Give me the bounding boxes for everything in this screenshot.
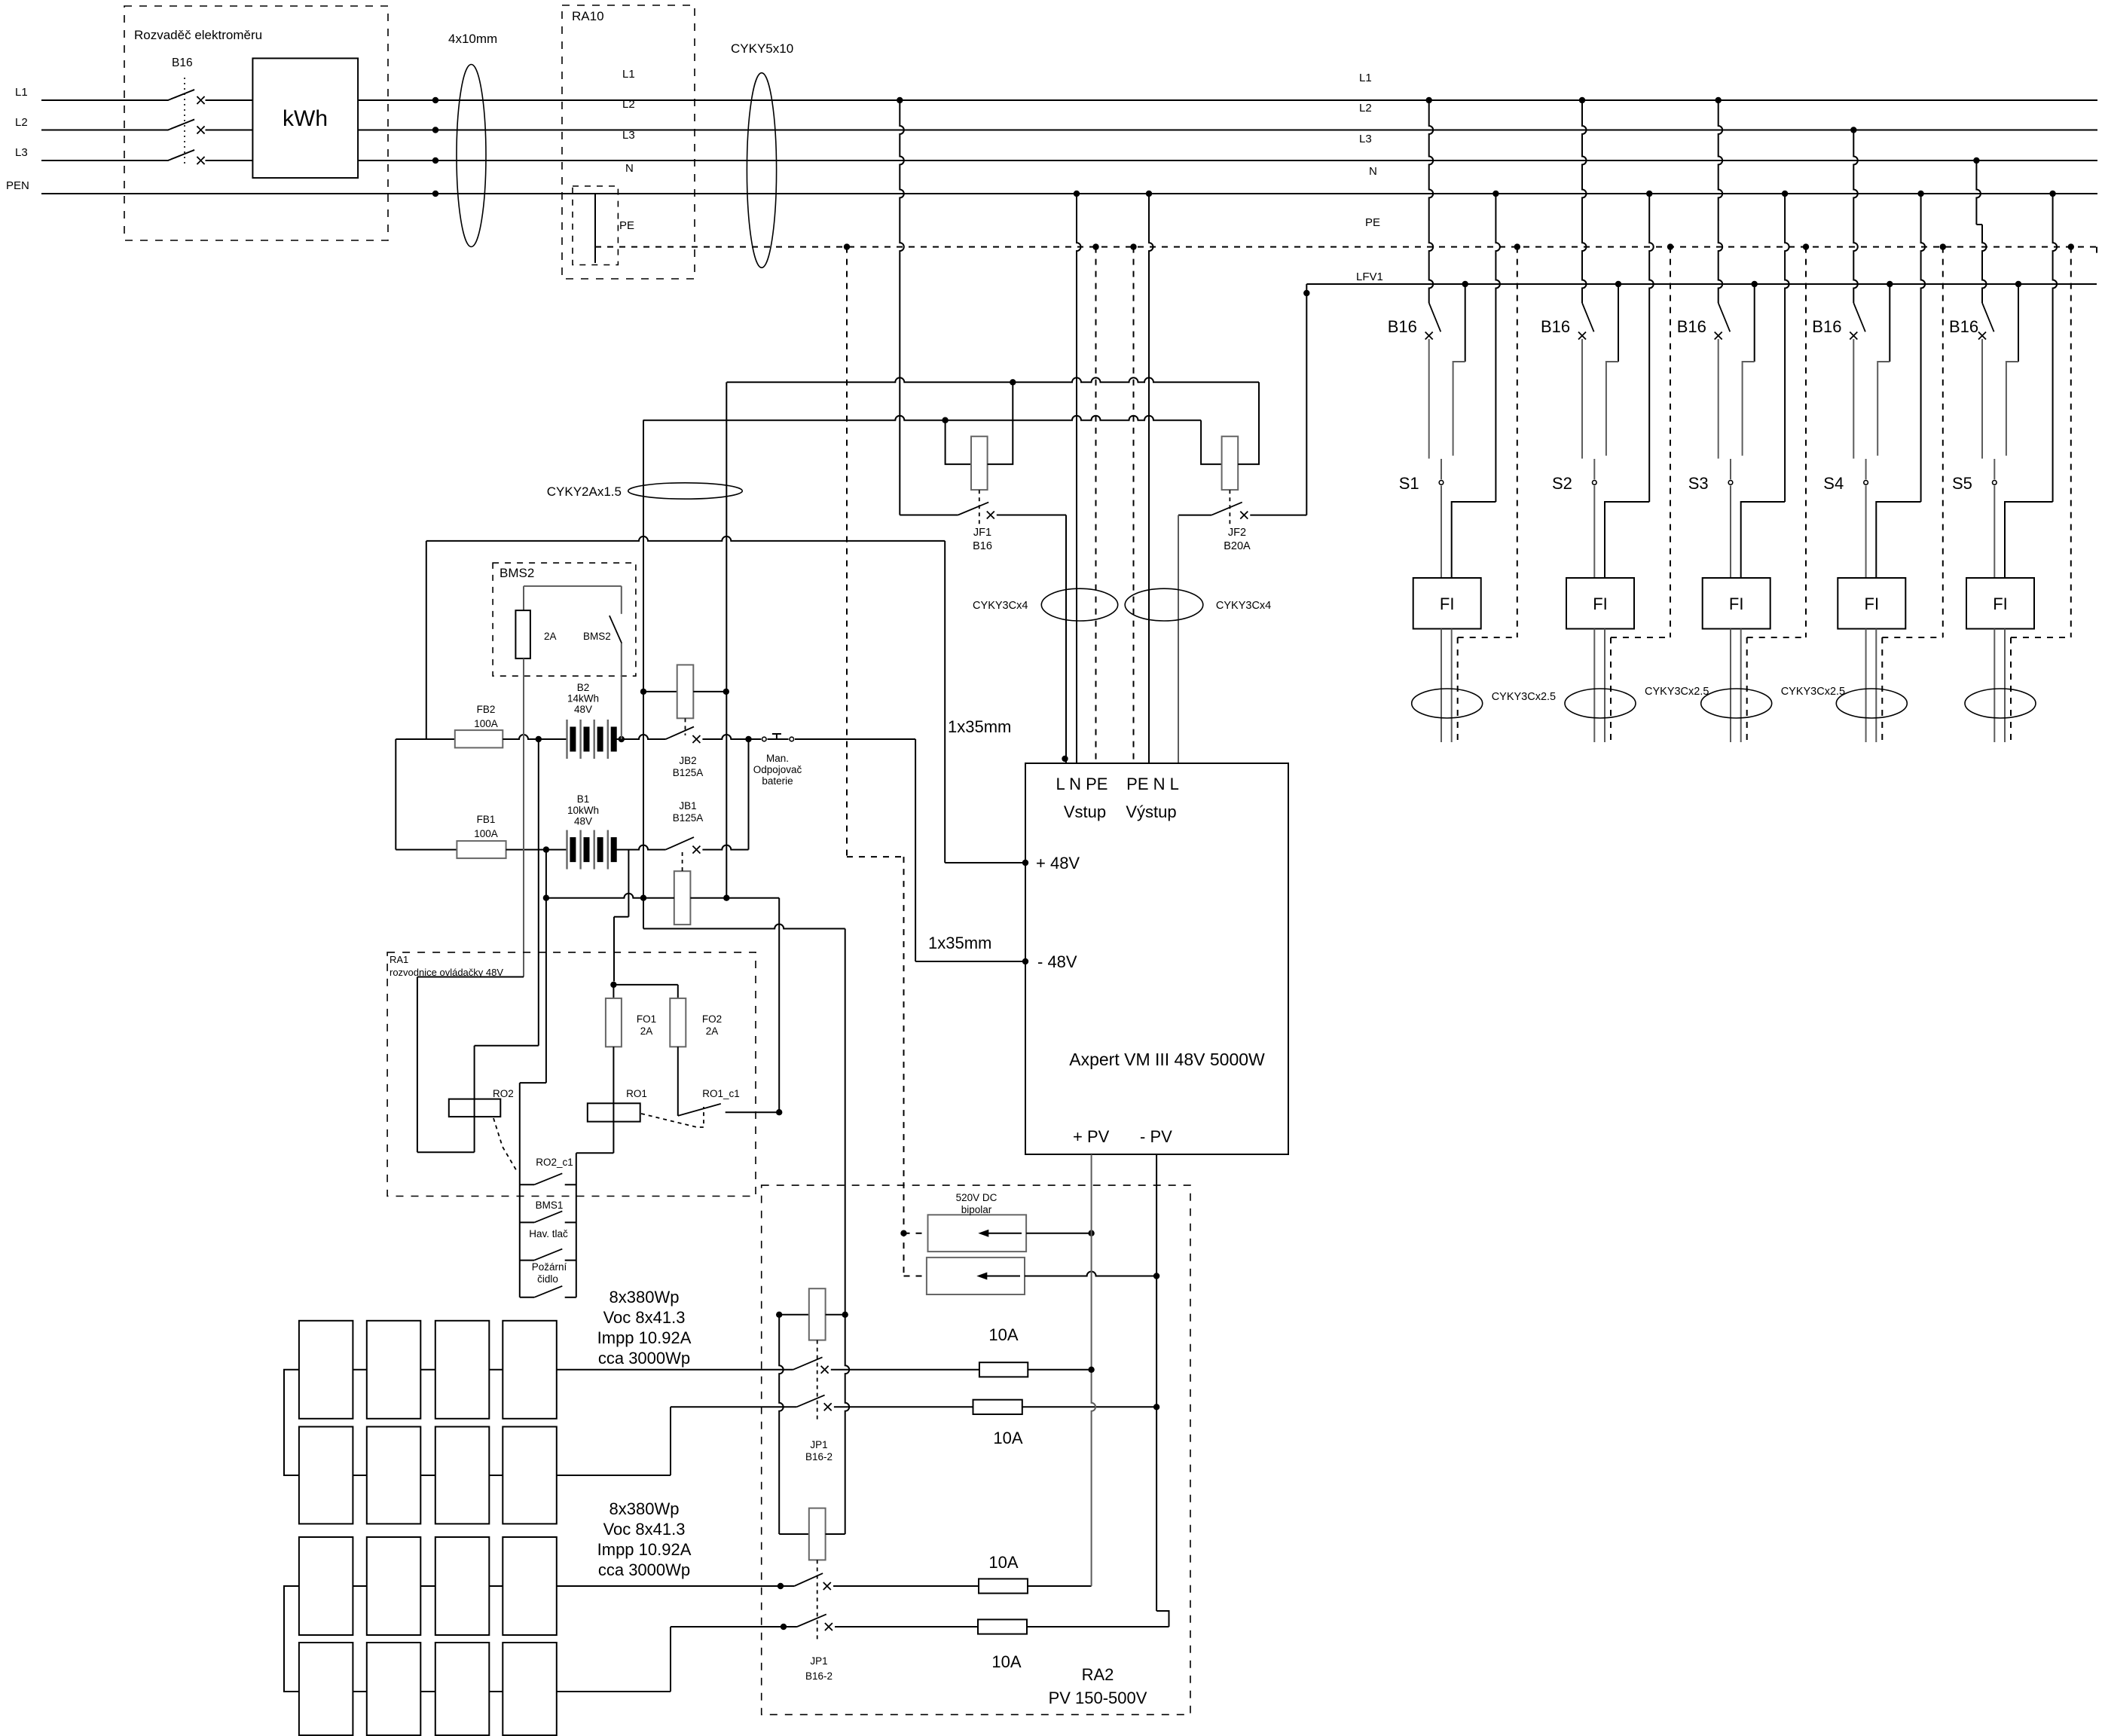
wire JB1 output down to RO1_c1 xyxy=(778,898,780,1113)
wire SPD2 to -PV xyxy=(1025,1272,1156,1276)
breaker B16 branch 2 feed wire from bus xyxy=(1579,97,1585,103)
svg-text:100A: 100A xyxy=(474,718,498,729)
cable CYKY3Cx2.5 ellipse branch 4 xyxy=(1836,689,1907,718)
relay coil RO2 circuit loop xyxy=(538,739,539,1046)
wire N tap branch 4 xyxy=(1917,191,1923,197)
breaker B16 branch 4 feed wire from bus xyxy=(1850,127,1856,133)
svg-text:48V: 48V xyxy=(574,704,592,715)
svg-text:BMS1: BMS1 xyxy=(536,1200,564,1211)
wire panel series link xyxy=(489,1691,503,1692)
contact BMS1 xyxy=(520,1221,534,1223)
switch JP1 lower pole 2 xyxy=(797,1614,826,1627)
wire N vystup xyxy=(1146,191,1152,197)
wire bus PEN/N xyxy=(41,193,2097,194)
wire L1 to JF1 switch xyxy=(897,97,903,103)
wire string2 row1 to JP1 xyxy=(557,1585,795,1587)
breaker B16 pole 1 (meter) xyxy=(168,90,194,100)
switch JP1 lower pole 1 xyxy=(794,1573,823,1586)
svg-text:- PV: - PV xyxy=(1140,1127,1172,1146)
wire FO supply junction xyxy=(610,982,616,988)
switch S4 changeover xyxy=(1865,459,1867,479)
svg-text:FO1: FO1 xyxy=(637,1013,656,1025)
wire PE tap branch 3 (dashed) xyxy=(1803,243,1809,249)
switch S1 changeover xyxy=(1441,459,1442,479)
svg-text:cca 3000Wp: cca 3000Wp xyxy=(598,1560,690,1579)
svg-text:CYKY5x10: CYKY5x10 xyxy=(731,41,793,56)
svg-text:10kWh: 10kWh xyxy=(567,805,599,816)
svg-text:Voc 8x41.3: Voc 8x41.3 xyxy=(603,1308,686,1327)
svg-text:B16-2: B16-2 xyxy=(805,1451,833,1462)
wire bus L3 xyxy=(41,160,2097,161)
wire string1 row1 to JP1 xyxy=(557,1369,793,1371)
PV panel rect xyxy=(435,1427,490,1524)
cable 4x10mm ellipse xyxy=(457,65,486,247)
svg-text:B2: B2 xyxy=(577,682,590,693)
svg-text:FI: FI xyxy=(1440,594,1455,613)
wire JB outputs tie xyxy=(748,739,750,850)
breaker JP1 upper fuse element xyxy=(776,1312,782,1318)
svg-text:FI: FI xyxy=(1593,594,1608,613)
svg-text:JF2: JF2 xyxy=(1228,527,1246,539)
wire bus L2 xyxy=(41,130,2097,131)
svg-text:B20A: B20A xyxy=(1224,540,1251,552)
svg-text:FI: FI xyxy=(1865,594,1880,613)
svg-text:JB2: JB2 xyxy=(679,755,696,766)
wire PE end stub xyxy=(2096,247,2097,258)
switch S3 changeover xyxy=(1730,459,1731,479)
svg-text:RA10: RA10 xyxy=(572,9,604,23)
svg-text:PV 150-500V: PV 150-500V xyxy=(1049,1689,1147,1707)
contact RO1_c1 xyxy=(678,1104,721,1116)
PV panel rect xyxy=(299,1537,353,1635)
svg-text:RO2_c1: RO2_c1 xyxy=(536,1157,573,1168)
breaker JB1 switch blade xyxy=(666,837,694,850)
wire LFV1 tap branch 5 xyxy=(2015,281,2021,287)
wire N vstup xyxy=(1074,191,1080,197)
svg-text:S2: S2 xyxy=(1552,474,1572,493)
wire odpojovac to -48V xyxy=(795,738,915,740)
PV panel rect xyxy=(503,1537,557,1635)
PV panel rect xyxy=(503,1427,557,1524)
wire +48V 1x35mm to inverter xyxy=(944,541,946,863)
wire JF2 to LFV1 xyxy=(1306,284,1307,515)
svg-text:B16: B16 xyxy=(1677,317,1706,336)
wire LFV1 tap branch 3 xyxy=(1752,281,1758,287)
svg-text:L3: L3 xyxy=(15,146,28,159)
PV panel rect xyxy=(299,1643,353,1735)
PV panel rect xyxy=(299,1427,353,1524)
wire FB left rail xyxy=(395,739,396,850)
svg-text:520V DC: 520V DC xyxy=(956,1192,998,1203)
svg-text:L1: L1 xyxy=(15,86,28,99)
wire panel series link xyxy=(420,1691,435,1692)
mech link JB1 (dashed) xyxy=(682,852,683,871)
wire L vystup to JF2 xyxy=(1178,515,1179,763)
svg-text:BMS2: BMS2 xyxy=(500,566,534,580)
wire bus LFV1 xyxy=(1306,283,2097,285)
wire +bus collect (H1191.7) xyxy=(543,895,549,901)
wire battery B1 row xyxy=(396,849,457,851)
cable CYKY3Cx2.5 ellipse branch 3 xyxy=(1701,689,1772,718)
PV panel rect xyxy=(503,1321,557,1419)
wire N tap branch 1 xyxy=(1492,191,1499,197)
breaker B16 branch 3 blade and cross xyxy=(1719,303,1731,332)
svg-text:RO1_c1: RO1_c1 xyxy=(702,1088,740,1099)
wire JF1 to inverter L vstup xyxy=(1065,515,1067,764)
RCD FI box branch 5 xyxy=(1966,578,2034,629)
RCD FI box branch 2 xyxy=(1566,578,1634,629)
mech link JB2 (dashed) xyxy=(685,718,686,735)
svg-text:CYKY3Cx2.5: CYKY3Cx2.5 xyxy=(1781,686,1845,698)
fuse 10A string2 pole2 xyxy=(835,1626,978,1627)
battery B2 cells xyxy=(566,720,567,759)
switch S5 changeover xyxy=(1993,459,1995,479)
mech link RO1 to RO1_c1 (dashed) xyxy=(641,1107,704,1127)
svg-text:L2: L2 xyxy=(15,116,28,129)
wire N tap branch 3 xyxy=(1782,191,1788,197)
PV panel rect xyxy=(367,1643,421,1735)
wires below FI branch 5 xyxy=(1993,629,1995,743)
contact chain rails xyxy=(519,1083,521,1297)
switch JF2 blade xyxy=(1178,515,1211,516)
wire chain feed jog xyxy=(520,1082,546,1083)
svg-text:4x10mm: 4x10mm xyxy=(448,32,497,46)
svg-text:B16-2: B16-2 xyxy=(805,1670,833,1682)
wire string2 row2 to JP1 xyxy=(557,1691,671,1692)
mech link JF1 (dashed) xyxy=(979,490,980,525)
wire panel series link xyxy=(420,1585,435,1587)
svg-text:BMS2: BMS2 xyxy=(583,631,611,642)
switch Man. Odpojovac baterie xyxy=(745,736,751,742)
svg-text:PE: PE xyxy=(1365,216,1380,229)
junction dot H557/JF1 fuse input xyxy=(942,417,948,423)
mech link JP1 upper (dashed) xyxy=(817,1340,818,1420)
label +48V terminal xyxy=(1022,860,1028,866)
breaker B16 branch 4 blade and cross xyxy=(1853,303,1865,332)
svg-text:B125A: B125A xyxy=(673,812,704,824)
enclosure Rozvadec elektromeru (dashed box) xyxy=(124,6,388,240)
cable CYKY3Cx2.5 ellipse branch 2 xyxy=(1565,689,1636,718)
wire BMS2 top xyxy=(524,585,622,587)
svg-text:B16: B16 xyxy=(973,540,992,552)
svg-text:2A: 2A xyxy=(706,1025,719,1037)
wire panel series link xyxy=(353,1691,366,1692)
cable CYKY2Ax1.5 ellipse xyxy=(628,483,743,499)
svg-text:čidlo: čidlo xyxy=(537,1273,558,1285)
wire FB1 to battery B1 xyxy=(506,849,567,851)
wire LFV1 tap branch 4 xyxy=(1887,281,1893,287)
wire horizontal H557 (battery + bus to JF fuses) xyxy=(643,416,1202,420)
RCD FI box branch 3 xyxy=(1703,578,1770,629)
svg-text:CYKY2Ax1.5: CYKY2Ax1.5 xyxy=(547,484,622,499)
enclosure BMS2 (dashed box) xyxy=(493,563,636,676)
PE bond marker box (dashed) xyxy=(573,186,618,265)
breaker B16 branch 2 blade and cross xyxy=(1582,303,1594,332)
breaker B16 branch 1 feed wire from bus xyxy=(1426,97,1432,103)
wires below FI branch 2 xyxy=(1593,629,1595,743)
fuse 2A BMS2 xyxy=(523,586,524,610)
svg-text:10A: 10A xyxy=(991,1652,1021,1671)
svg-text:8x380Wp: 8x380Wp xyxy=(610,1499,680,1518)
cable CYKY3Cx4 ellipse input xyxy=(1041,588,1117,621)
wire N tap branch 5 xyxy=(2049,191,2055,197)
svg-text:L2: L2 xyxy=(622,98,635,111)
fuse-switch JF1 B16 fuse element xyxy=(946,420,971,464)
wire PE vstup (dashed) xyxy=(1092,243,1098,249)
enclosure RA10 (dashed box) xyxy=(562,5,695,279)
junction dots after meter xyxy=(432,97,438,103)
wire N tap branch 2 xyxy=(1646,191,1652,197)
svg-text:Voc 8x41.3: Voc 8x41.3 xyxy=(603,1520,686,1539)
svg-text:Axpert VM III 48V 5000W: Axpert VM III 48V 5000W xyxy=(1069,1050,1265,1069)
cable CYKY3Cx2.5 ellipse branch 1 xyxy=(1412,689,1483,718)
battery B1 cells xyxy=(566,830,567,870)
svg-text:cca 3000Wp: cca 3000Wp xyxy=(598,1349,690,1368)
breaker JP1 lower fuse element xyxy=(779,1533,809,1535)
svg-text:PE N L: PE N L xyxy=(1126,775,1179,793)
wire VL tail to RA2 rail xyxy=(643,898,644,929)
svg-text:L3: L3 xyxy=(1359,133,1372,145)
mech link dotted (meter B16 poles) xyxy=(184,78,185,166)
svg-text:RA1: RA1 xyxy=(390,954,408,965)
cable CYKY3Cx2.5 ellipse branch 5 xyxy=(1965,689,2036,718)
RCD FI box branch 4 xyxy=(1838,578,1905,629)
wire battery B2 row xyxy=(396,738,455,740)
svg-text:FI: FI xyxy=(1993,594,2008,613)
breaker B16 branch 1 blade and cross xyxy=(1429,303,1441,332)
breaker B16 branch 1 output wire xyxy=(1428,339,1430,459)
RCD FI box branch 1 xyxy=(1413,578,1481,629)
svg-text:B16: B16 xyxy=(1812,317,1841,336)
svg-text:L2: L2 xyxy=(1359,102,1372,115)
wire B1 to JB1 switch xyxy=(614,845,665,850)
fuse FO1 2A xyxy=(613,985,614,998)
svg-text:JF1: JF1 xyxy=(973,527,991,539)
contact Hav. tlac xyxy=(520,1260,534,1261)
breaker B16 branch 5 blade and cross xyxy=(1982,303,1994,332)
wire VR rail (CYKY2A right) xyxy=(726,382,727,897)
surge arrester box 2 (520V DC bipolar) xyxy=(927,1258,1025,1294)
svg-text:L N PE: L N PE xyxy=(1056,775,1108,793)
svg-text:RO2: RO2 xyxy=(493,1088,514,1099)
svg-text:Vstup: Vstup xyxy=(1064,802,1106,821)
relay coil RO2 xyxy=(474,1099,475,1153)
svg-text:FB2: FB2 xyxy=(477,704,496,715)
svg-text:JP1: JP1 xyxy=(810,1655,827,1667)
svg-text:8x380Wp: 8x380Wp xyxy=(610,1288,680,1307)
meter kWh box xyxy=(252,58,358,178)
svg-text:RO1: RO1 xyxy=(626,1088,647,1099)
svg-text:Man.: Man. xyxy=(766,753,789,764)
wire horizontal H718 (FB side to +48V) xyxy=(426,536,945,541)
fuse-switch JF2 B20A fuse element xyxy=(1201,420,1222,464)
breaker JB2 fuse element xyxy=(640,689,646,695)
svg-text:+ 48V: + 48V xyxy=(1036,854,1080,873)
svg-text:Odpojovač: Odpojovač xyxy=(753,764,802,775)
fuse FO2 2A xyxy=(677,985,679,998)
svg-text:kWh: kWh xyxy=(283,106,328,131)
svg-text:Požární: Požární xyxy=(532,1261,567,1273)
PV panel rect xyxy=(367,1427,421,1524)
junction dot H507/JF1 output xyxy=(1010,379,1016,385)
svg-text:FB1: FB1 xyxy=(477,814,496,825)
svg-text:N: N xyxy=(625,162,634,175)
svg-text:10A: 10A xyxy=(988,1325,1018,1344)
switch JP1 upper pole 1 xyxy=(793,1357,823,1370)
svg-text:2A: 2A xyxy=(640,1025,653,1037)
wire VL rail (CYKY2A left) xyxy=(643,420,644,929)
PV panel rect xyxy=(435,1321,490,1419)
wires below FI branch 4 xyxy=(1865,629,1867,743)
svg-text:Výstup: Výstup xyxy=(1126,802,1176,821)
svg-text:CYKY3Cx2.5: CYKY3Cx2.5 xyxy=(1492,691,1556,703)
wire +PV vertical xyxy=(1092,1154,1096,1586)
switch S2 changeover xyxy=(1593,459,1595,479)
breaker B16 branch 3 feed wire from bus xyxy=(1715,97,1722,103)
svg-text:CYKY3Cx4: CYKY3Cx4 xyxy=(1216,600,1271,612)
enclosure RA1 (dashed box) xyxy=(387,952,756,1197)
svg-text:- 48V: - 48V xyxy=(1037,952,1077,971)
mech link JF2 (dashed) xyxy=(1229,490,1230,525)
mech link JP1 lower (dashed) xyxy=(817,1560,818,1641)
wire bus L1 xyxy=(41,99,2097,101)
fuse 10A string1 pole1 xyxy=(831,1369,979,1371)
wire LFV1 tap branch 2 xyxy=(1615,281,1621,287)
svg-text:JB1: JB1 xyxy=(679,800,696,811)
switch BMS2 blade xyxy=(621,586,622,614)
svg-text:B16: B16 xyxy=(1388,317,1417,336)
PV panel rect xyxy=(299,1321,353,1419)
svg-text:LFV1: LFV1 xyxy=(1356,270,1383,283)
wire panel series link xyxy=(353,1475,366,1476)
breaker B16 branch 3 output wire xyxy=(1718,339,1719,459)
svg-text:PE: PE xyxy=(619,219,634,232)
svg-text:B16: B16 xyxy=(1949,317,1978,336)
svg-text:B1: B1 xyxy=(577,793,590,805)
svg-text:Hav. tlač: Hav. tlač xyxy=(529,1228,568,1239)
svg-text:Impp 10.92A: Impp 10.92A xyxy=(597,1540,692,1559)
svg-text:bipolar: bipolar xyxy=(961,1204,992,1215)
svg-text:14kWh: 14kWh xyxy=(567,693,599,704)
fuse FB1 100A xyxy=(457,841,506,858)
PV panel rect xyxy=(435,1537,490,1635)
wire panel series link xyxy=(353,1369,366,1371)
cable CYKY3Cx4 ellipse output xyxy=(1125,588,1203,621)
wire string2 left series link xyxy=(284,1586,299,1692)
wire panel series link xyxy=(489,1369,503,1371)
svg-text:1x35mm: 1x35mm xyxy=(928,934,991,952)
svg-text:100A: 100A xyxy=(474,828,498,839)
svg-text:Impp 10.92A: Impp 10.92A xyxy=(597,1328,692,1347)
svg-text:+ PV: + PV xyxy=(1073,1127,1110,1146)
PV panel rect xyxy=(435,1643,490,1735)
svg-text:L1: L1 xyxy=(622,68,635,81)
breaker B16 pole 3 (meter) xyxy=(168,150,194,160)
svg-text:RA2: RA2 xyxy=(1082,1665,1114,1684)
wire LFV1 tap branch 1 xyxy=(1462,281,1468,287)
wire B1 tap to RA1 supply xyxy=(628,850,629,917)
breaker JB2 switch blade xyxy=(666,727,694,740)
wire SPD1 to +PV xyxy=(1026,1233,1092,1234)
wires below FI branch 1 xyxy=(1441,629,1442,743)
wire string1 row2 to JP1 xyxy=(557,1475,671,1476)
wire PE tap branch 2 (dashed) xyxy=(1667,243,1673,249)
contact RO2_c1 xyxy=(520,1184,534,1185)
svg-text:FI: FI xyxy=(1729,594,1744,613)
breaker B16 branch 5 feed wire from bus xyxy=(1973,157,1979,164)
cable CYKY5x10 ellipse xyxy=(747,73,776,268)
svg-text:FO2: FO2 xyxy=(702,1013,722,1025)
breaker B16 pole 2 (meter) xyxy=(168,120,194,130)
svg-text:B125A: B125A xyxy=(673,767,704,778)
wire PE tap branch 4 (dashed) xyxy=(1940,243,1946,249)
svg-text:CYKY3Cx2.5: CYKY3Cx2.5 xyxy=(1645,686,1709,698)
wire panel series link xyxy=(420,1369,435,1371)
fuse 10A string2 pole1 xyxy=(833,1585,979,1587)
wire panel series link xyxy=(353,1585,366,1587)
mech link RO2 to RO2_c1 (dashed) xyxy=(493,1118,518,1172)
PV panel rect xyxy=(367,1321,421,1419)
breaker B16 branch 2 output wire xyxy=(1581,339,1583,459)
fuse FB2 100A xyxy=(455,730,503,747)
wire string1 left series link xyxy=(284,1370,299,1475)
switch JF1 blade xyxy=(900,515,958,516)
wire panel series link xyxy=(489,1585,503,1587)
wire -PV vertical xyxy=(1156,1154,1157,1611)
wire PE tap branch 1 (dashed) xyxy=(1514,243,1520,249)
breaker JB1 fuse element xyxy=(640,895,646,901)
svg-text:1x35mm: 1x35mm xyxy=(948,717,1011,736)
wire bus PE (dashed) xyxy=(595,246,2097,248)
svg-text:B16: B16 xyxy=(1541,317,1570,336)
surge arrester box 1 (520V DC bipolar) xyxy=(928,1215,1027,1252)
svg-text:S4: S4 xyxy=(1823,474,1844,493)
wire H718 left drop to FB2 wire xyxy=(426,541,427,739)
breaker B16 branch 5 output wire xyxy=(1981,339,1983,459)
svg-text:PEN: PEN xyxy=(6,179,29,192)
svg-text:S5: S5 xyxy=(1952,474,1972,493)
PV panel rect xyxy=(367,1537,421,1635)
relay coil RO1 xyxy=(613,1103,614,1153)
wire FB2 to battery B2 xyxy=(503,735,567,739)
svg-text:S3: S3 xyxy=(1688,474,1709,493)
svg-text:JP1: JP1 xyxy=(810,1439,827,1450)
svg-text:Rozvaděč elektroměru: Rozvaděč elektroměru xyxy=(134,28,262,42)
svg-text:S1: S1 xyxy=(1399,474,1419,493)
inverter Axpert VM III box xyxy=(1025,763,1288,1154)
svg-text:CYKY3Cx4: CYKY3Cx4 xyxy=(973,600,1028,612)
svg-text:B16: B16 xyxy=(172,57,193,69)
svg-text:10A: 10A xyxy=(993,1429,1022,1447)
wire panel series link xyxy=(489,1475,503,1476)
PV panel rect xyxy=(503,1643,557,1735)
svg-text:48V: 48V xyxy=(574,816,592,827)
wire PE tap branch 5 (dashed) xyxy=(2068,243,2074,249)
wire B2 to JB2 switch xyxy=(614,735,665,739)
svg-text:10A: 10A xyxy=(988,1553,1018,1572)
label -48V terminal xyxy=(1022,958,1028,964)
fuse 10A string1 pole2 xyxy=(834,1406,973,1407)
wire PE vystup (dashed) xyxy=(1130,243,1136,249)
wires below FI branch 3 xyxy=(1730,629,1731,743)
contact Pozarni cidlo xyxy=(520,1297,534,1298)
switch JP1 upper pole 2 xyxy=(796,1395,824,1407)
breaker B16 branch 4 output wire xyxy=(1853,339,1854,459)
svg-text:L3: L3 xyxy=(622,129,635,142)
svg-text:baterie: baterie xyxy=(762,775,793,787)
svg-text:2A: 2A xyxy=(544,631,557,642)
wire panel series link xyxy=(420,1475,435,1476)
